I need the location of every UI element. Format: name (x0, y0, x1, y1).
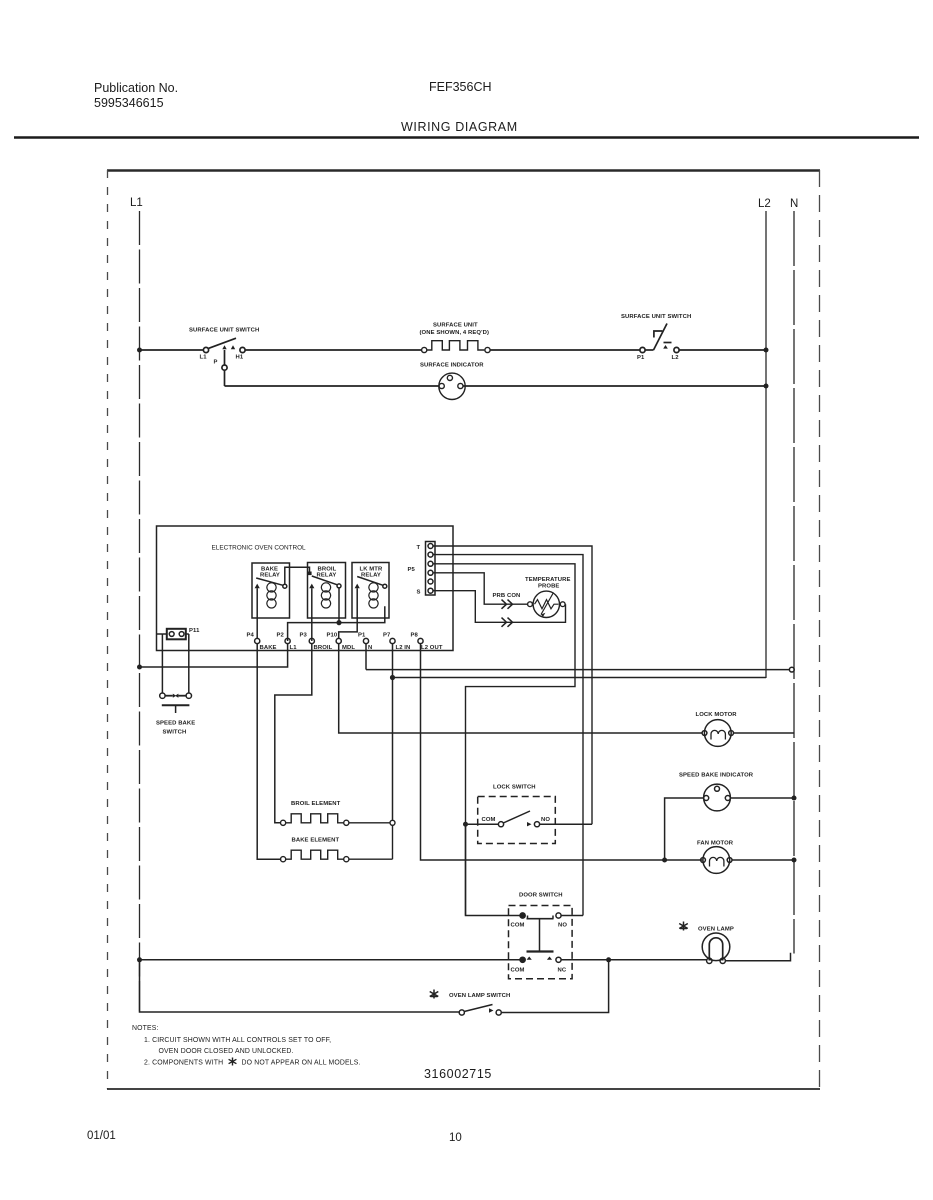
svg-text:LOCK MOTOR: LOCK MOTOR (696, 712, 738, 718)
svg-text:P7: P7 (383, 633, 391, 639)
HEADER (14, 80, 919, 138)
svg-text:10: 10 (449, 1132, 462, 1144)
OUTERBOX (107, 170, 820, 1089)
wire L1 rail (288, 606, 385, 641)
svg-text:1. CIRCUIT SHOWN WITH ALL CO: 1. CIRCUIT SHOWN WITH ALL CONTROLS SET T… (144, 1037, 331, 1044)
electronic oven control box (157, 526, 454, 651)
wire P3 jog to broil element (275, 644, 312, 823)
labels pin numbers (247, 633, 419, 639)
wire L1 to surface unit switch (140, 349, 204, 351)
svg-text:P11: P11 (189, 628, 200, 634)
terminal P10 (336, 638, 341, 643)
node fan motor N junction (792, 858, 797, 863)
node L1 door junction (137, 957, 142, 962)
node broil L2 connector (390, 820, 395, 825)
svg-text:L1: L1 (130, 197, 143, 209)
svg-text:DO NOT APPEAR ON ALL MODELS.: DO NOT APPEAR ON ALL MODELS. (242, 1060, 361, 1067)
svg-text:P10: P10 (327, 633, 338, 639)
svg-text:OVEN LAMP: OVEN LAMP (698, 927, 734, 933)
door switch box (509, 906, 573, 979)
svg-text:OVEN DOOR CLOSED AND UNLOCKED.: OVEN DOOR CLOSED AND UNLOCKED. (159, 1048, 294, 1055)
wire P11 left (157, 633, 163, 635)
wire surface indicator row left (225, 385, 440, 387)
connector P11 (157, 628, 201, 639)
wire L1 to oven lamp switch (140, 960, 460, 1012)
wire oven lamp to N (725, 953, 790, 961)
svg-text:DOOR SWITCH: DOOR SWITCH (519, 893, 563, 899)
node L1 top junction (137, 348, 142, 353)
wire strip pin T (433, 546, 592, 824)
svg-text:FAN MOTOR: FAN MOTOR (697, 841, 734, 847)
wire oven lamp switch to junction (501, 962, 608, 1013)
wire broil relay contact riser (338, 588, 340, 623)
lock switch (468, 811, 551, 827)
relay K3 LK MTR RELAY (352, 563, 389, 619)
wire door NC to oven lamp (561, 959, 707, 961)
connector PRB CON chevrons upper (502, 600, 513, 609)
wire speed bake indicator to N (730, 797, 794, 799)
lock switch box (478, 797, 556, 844)
surface unit element (422, 341, 491, 353)
svg-text:L2: L2 (758, 198, 771, 210)
svg-text:(ONE SHOWN, 4 REQ'D): (ONE SHOWN, 4 REQ'D) (420, 330, 490, 336)
svg-text:L2 OUT: L2 OUT (421, 645, 443, 651)
wire right switch to L2 (679, 349, 766, 351)
svg-text:SURFACE UNIT SWITCH: SURFACE UNIT SWITCH (189, 328, 259, 334)
symbol asterisk oven lamp (679, 922, 688, 931)
wire P11 right leg (188, 634, 190, 693)
wire L2 horizontal (393, 677, 767, 679)
fan motor M2 (701, 847, 732, 874)
line L2 (765, 211, 767, 678)
svg-text:H1: H1 (236, 355, 244, 361)
svg-text:ELECTRONIC OVEN CONTROL: ELECTRONIC OVEN CONTROL (212, 545, 307, 552)
svg-text:MDL: MDL (342, 645, 355, 651)
speed bake indicator lamp (704, 784, 731, 811)
svg-text:SURFACE UNIT: SURFACE UNIT (433, 323, 478, 329)
wire surface indicator row right (463, 385, 766, 387)
door switch actuator bar (527, 950, 554, 952)
svg-text:OVEN LAMP SWITCH: OVEN LAMP SWITCH (449, 993, 510, 999)
wire door NO riser (561, 915, 583, 917)
terminal P3 (309, 638, 314, 643)
svg-text:T: T (417, 545, 421, 551)
svg-text:P8: P8 (411, 633, 419, 639)
node lamp circuit junction (606, 957, 611, 962)
wire P tap (224, 350, 226, 365)
svg-text:SPEED BAKE: SPEED BAKE (156, 721, 195, 727)
svg-text:FEF356CH: FEF356CH (429, 80, 492, 94)
oven lamp switch (459, 1005, 501, 1016)
svg-text:2. COMPONENTS WITH: 2. COMPONENTS WITH (144, 1060, 223, 1067)
contact square broil (308, 572, 312, 576)
door switch lower pole (511, 957, 567, 974)
svg-text:PRB CON: PRB CON (493, 593, 521, 599)
wire N horizontal (366, 669, 790, 671)
svg-text:PROBE: PROBE (538, 584, 559, 590)
svg-text:NO: NO (541, 817, 550, 823)
wire bake element to P7 riser (349, 858, 393, 860)
FOOTER (87, 1025, 492, 1144)
svg-text:L1: L1 (200, 355, 208, 361)
wire P7 riser (392, 644, 394, 821)
diagram border bottom (107, 1088, 820, 1090)
door switch upper pole (511, 913, 568, 929)
EOC (157, 526, 454, 651)
wire to door switch COM (466, 827, 521, 916)
oven lamp (702, 933, 730, 964)
line N (793, 211, 795, 954)
svg-text:NC: NC (558, 968, 567, 974)
svg-text:RELAY: RELAY (260, 573, 280, 579)
svg-text:SPEED BAKE INDICATOR: SPEED BAKE INDICATOR (679, 773, 754, 779)
line L1 (139, 211, 141, 1012)
wire strip pin 2 (433, 555, 583, 916)
wire speed bake indicator left (665, 798, 704, 860)
wire P1 riser (365, 644, 367, 670)
symbol asterisk oven lamp switch (430, 990, 439, 999)
terminal P1 (363, 638, 368, 643)
labels pin names (260, 645, 443, 651)
wire strip pin S to probe (433, 591, 566, 623)
svg-text:NO: NO (558, 923, 567, 929)
wire strip pin 3 (433, 564, 575, 916)
node L2 top junction (764, 348, 769, 353)
wire P4 riser to bake element (257, 644, 281, 860)
wire surface unit to right switch (490, 349, 640, 351)
lock motor M1 (702, 720, 733, 747)
svg-text:RELAY: RELAY (361, 573, 381, 579)
wire bake relay contact to broil relay (285, 567, 310, 584)
ELEMENTS (281, 801, 396, 862)
temperature probe (528, 591, 566, 617)
node L1 to P2 junction (137, 665, 142, 670)
svg-text:P: P (214, 359, 218, 365)
svg-text:BAKE ELEMENT: BAKE ELEMENT (292, 837, 340, 843)
svg-text:BAKE: BAKE (260, 645, 277, 651)
terminal strip P5 (408, 542, 436, 596)
terminal P8 (418, 638, 423, 643)
wire L1 to P2 (140, 644, 288, 667)
svg-text:L1: L1 (290, 645, 298, 651)
surface unit switch left (200, 338, 246, 386)
wire P8 riser to fan motor (421, 644, 703, 860)
svg-text:NOTES:: NOTES: (132, 1025, 159, 1032)
wire switch to surface unit (245, 349, 421, 351)
broil element (281, 814, 349, 826)
svg-text:WIRING DIAGRAM: WIRING DIAGRAM (401, 120, 518, 134)
relay K1 BAKE RELAY (252, 563, 290, 638)
svg-text:SURFACE UNIT SWITCH: SURFACE UNIT SWITCH (621, 314, 691, 320)
node fan motor branch junction (662, 858, 667, 863)
diagram border left (107, 170, 109, 1089)
wire lock switch NO to T riser (540, 823, 592, 825)
terminal P4 (255, 638, 260, 643)
svg-text:Publication No.: Publication No. (94, 81, 178, 95)
svg-text:LOCK SWITCH: LOCK SWITCH (493, 785, 536, 791)
relay K2 BROIL RELAY (308, 563, 346, 642)
svg-text:N: N (790, 198, 798, 210)
diagram border right (819, 170, 821, 1089)
svg-text:RELAY: RELAY (317, 573, 337, 579)
svg-text:BROIL ELEMENT: BROIL ELEMENT (291, 801, 341, 807)
node P7 L2 junction (390, 675, 395, 680)
wire P11 left leg (161, 634, 163, 693)
diagram border top (107, 169, 820, 171)
wire P10 riser to lock motor (339, 644, 702, 733)
wire broil element to P7 riser (349, 822, 390, 824)
svg-text:P2: P2 (277, 633, 285, 639)
wire lock motor to N (734, 732, 795, 734)
svg-text:S: S (417, 590, 421, 596)
wire P10 to LK MTR armature (339, 588, 358, 638)
node N connector circle (789, 667, 794, 672)
wire strip pin 4 to probe (433, 573, 527, 604)
symbol asterisk note (229, 1058, 237, 1066)
svg-text:SURFACE INDICATOR: SURFACE INDICATOR (420, 363, 484, 369)
svg-text:SWITCH: SWITCH (163, 730, 187, 736)
wire L1 to door COM (140, 959, 521, 961)
node speed bake indicator N junction (792, 796, 797, 801)
node L2 indicator junction (764, 384, 769, 389)
svg-text:COM: COM (482, 817, 496, 823)
surface indicator lamp (439, 373, 465, 399)
svg-text:L2: L2 (672, 355, 680, 361)
svg-text:P5: P5 (408, 567, 416, 573)
PROBE (433, 546, 592, 916)
LEFTSIDE (137, 634, 702, 860)
svg-text:5995346615: 5995346615 (94, 96, 164, 110)
wire fan motor to N (732, 859, 794, 861)
connector PRB CON chevrons lower (502, 618, 513, 627)
SWITCHES (137, 785, 791, 1016)
svg-text:316002715: 316002715 (424, 1067, 492, 1081)
svg-text:COM: COM (511, 923, 525, 929)
speed bake switch (156, 693, 195, 736)
svg-text:P1: P1 (637, 355, 645, 361)
surface unit switch right (637, 324, 679, 362)
svg-text:P3: P3 (300, 633, 308, 639)
svg-text:L2 IN: L2 IN (396, 645, 411, 651)
node lock switch COM junction (463, 822, 468, 827)
svg-text:P1: P1 (358, 633, 366, 639)
wire P7 riser lower (392, 825, 394, 859)
svg-text:TEMPERATURE: TEMPERATURE (525, 577, 571, 583)
svg-text:BROIL: BROIL (314, 645, 333, 651)
node rail junction (336, 620, 341, 625)
bake element (281, 850, 349, 862)
TOPROW (137, 314, 769, 399)
wire door switch link (539, 919, 541, 951)
RIGHTSIDE (366, 667, 797, 963)
terminal P2 (285, 638, 290, 643)
header rule (14, 136, 919, 139)
svg-text:01/01: 01/01 (87, 1130, 116, 1142)
svg-text:N: N (368, 645, 372, 651)
svg-text:P4: P4 (247, 633, 255, 639)
svg-text:COM: COM (511, 968, 525, 974)
terminal P7 (390, 638, 395, 643)
